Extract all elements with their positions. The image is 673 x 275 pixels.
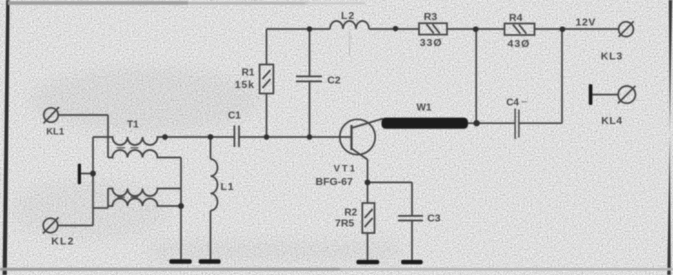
svg-text:33Ø: 33Ø [420,37,443,49]
svg-text:R4: R4 [509,12,523,24]
svg-text:W1: W1 [417,103,432,114]
svg-text:12V: 12V [576,17,596,29]
svg-text:L1: L1 [221,181,235,193]
svg-text:VT1: VT1 [334,164,357,175]
svg-text:R1: R1 [242,68,255,79]
svg-text:KL2: KL2 [51,236,74,248]
svg-text:C4: C4 [506,98,519,109]
svg-text:KL3: KL3 [601,51,623,63]
svg-text:7R5: 7R5 [335,218,354,230]
svg-text:15k: 15k [235,79,255,91]
svg-text:43Ø: 43Ø [508,38,531,50]
svg-text:T1: T1 [127,120,139,131]
svg-text:KL4: KL4 [601,115,622,127]
svg-text:L2: L2 [341,10,355,22]
svg-text:C1: C1 [228,111,241,122]
svg-text:BFG-67: BFG-67 [316,176,354,188]
svg-text:KL1: KL1 [46,127,65,138]
svg-text:C3: C3 [427,213,441,225]
svg-text:R3: R3 [424,11,438,23]
svg-text:C2: C2 [327,75,341,87]
